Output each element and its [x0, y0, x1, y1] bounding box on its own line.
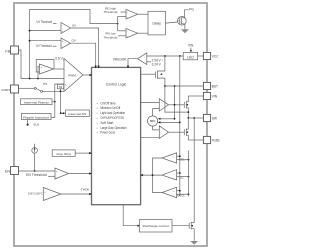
arrowhead VREGOK into control logic — [127, 66, 129, 69]
comparator OCL — [162, 153, 177, 163]
svg-text:Control Logic: Control Logic — [106, 83, 127, 87]
comparator UV — [61, 23, 71, 34]
svg-text:SLN: SLN — [33, 122, 39, 126]
node SS switch line — [60, 90, 62, 92]
arrowhead internal SS to bus — [63, 112, 65, 114]
wire stub to IPG high cmp minus — [118, 16, 126, 18]
svg-text:ZC: ZC — [180, 175, 185, 179]
svg-text:Ripple Injection: Ripple Injection — [23, 115, 49, 119]
node rail A tap — [174, 85, 176, 87]
comparator EN — [55, 168, 69, 179]
svg-text:VREGOK: VREGOK — [113, 58, 127, 62]
svg-text:On/Off time: On/Off time — [100, 101, 116, 105]
wire IPG low out — [138, 32, 148, 34]
wire BBM bottom stub — [153, 126, 160, 130]
bullet list control logic functions — [97, 101, 127, 134]
wire IPG low threshold dash — [118, 35, 126, 37]
wire ZC input 1 — [177, 172, 180, 174]
wire OCL input 2 — [177, 159, 189, 161]
arrowhead PWM into control logic — [90, 74, 93, 76]
wire FB sense to IPG comparators — [30, 10, 118, 24]
wire IPG input bus — [117, 17, 119, 31]
wire VIN sense line to LDO — [147, 55, 183, 57]
wire BBM feedback line 2 — [160, 121, 180, 123]
wire UV threshold dash — [53, 22, 57, 24]
wire SLLM input 1 — [177, 190, 180, 192]
wire IPG high threshold dash — [121, 11, 126, 13]
wire VIN pin — [188, 95, 203, 97]
svg-text:BBM: BBM — [150, 120, 155, 123]
svg-text:0.6 V: 0.6 V — [55, 56, 63, 60]
pin SW — [203, 114, 210, 121]
one shot block — [52, 150, 75, 156]
wire discharge rail — [193, 118, 195, 223]
svg-text:Discharge control: Discharge control — [143, 224, 169, 228]
svg-text:•: • — [97, 121, 98, 125]
SS small box — [57, 84, 63, 89]
svg-text:Threshold: Threshold — [104, 35, 118, 39]
driver HS — [159, 99, 168, 111]
wire BBM top stub — [153, 109, 160, 116]
svg-text:One Shot: One Shot — [56, 152, 71, 156]
node BST switch drain — [164, 55, 166, 57]
wire IPG high out — [138, 13, 148, 15]
node SS internal junction — [60, 112, 62, 114]
wire cluster rail C — [188, 151, 190, 197]
node UV stub — [29, 30, 31, 32]
svg-text:PWM: PWM — [68, 73, 76, 77]
internal ramp block — [21, 99, 53, 105]
svg-text:VOSNS: VOSNS — [1, 88, 10, 92]
svg-text:•: • — [97, 126, 98, 130]
svg-text:Threshold: Threshold — [104, 10, 118, 14]
discharge control block — [140, 220, 173, 233]
pin VOSNS — [11, 85, 19, 93]
node rail A gate line junction — [174, 104, 176, 106]
node VIN rail tap — [179, 55, 181, 57]
comparator VREG monitor — [138, 53, 147, 65]
wire SLLM input 2 — [177, 193, 189, 195]
svg-text:SS: SS — [59, 86, 63, 89]
node FB sense junction — [117, 23, 119, 25]
comparator SLLM — [162, 187, 177, 197]
node SW FETs — [187, 117, 189, 119]
wire one shot output — [75, 152, 90, 154]
wire ZC output into control logic — [142, 174, 162, 176]
wire rail A down — [174, 86, 176, 119]
svg-text:PGND: PGND — [212, 139, 220, 143]
svg-text:Soft Start: Soft Start — [100, 121, 113, 125]
wire OCL input 1 — [177, 155, 180, 157]
wire stub to IPG low cmp plus — [118, 30, 126, 32]
wire ZC input 2 — [177, 176, 189, 178]
wire ripple output to bus — [51, 117, 55, 119]
wire control logic to discharge — [123, 205, 138, 226]
control logic block — [92, 67, 141, 204]
wire ripple down stub — [27, 120, 29, 124]
node EN junction — [34, 170, 36, 172]
wire VREGOK to control logic — [128, 59, 138, 67]
svg-text:EN Threshold: EN Threshold — [26, 173, 47, 177]
wire OV threshold dash — [53, 45, 57, 47]
svg-text:VCC: VCC — [212, 55, 219, 59]
transistor BST switch FET — [141, 73, 156, 75]
ground PG FET — [181, 29, 189, 33]
comparator TSD — [43, 188, 61, 201]
pin VCC — [203, 52, 210, 59]
wire OV output to control logic — [71, 43, 96, 66]
wire PGND — [188, 139, 203, 141]
wire FB pin down to PWM comparator — [19, 50, 65, 79]
wire LDO output to VCC pin — [198, 55, 204, 57]
svg-text:THOK: THOK — [81, 188, 91, 192]
node ramp junction — [54, 101, 56, 103]
svg-text:•: • — [97, 111, 98, 115]
arrowhead UV into control logic — [98, 66, 100, 69]
svg-text:150°C/130°C: 150°C/130°C — [28, 192, 43, 196]
svg-text:Large Duty Operation: Large Duty Operation — [100, 126, 126, 130]
wire stub OV cmp — [30, 40, 62, 42]
wire EN threshold dash — [48, 175, 55, 177]
node BST source junction — [164, 85, 166, 87]
comparator OV — [61, 38, 71, 49]
wire EN cmp output — [69, 173, 91, 175]
pin VIN — [203, 92, 210, 99]
current source EN pullup — [32, 148, 38, 154]
node FB/bus junction — [29, 78, 31, 80]
BBM circle — [148, 116, 158, 126]
svg-text:•: • — [97, 116, 98, 120]
svg-text:Internal Ramp: Internal Ramp — [24, 101, 49, 105]
wire BST rail — [165, 85, 204, 87]
wire summing bus — [54, 84, 56, 118]
pin PGND — [203, 136, 210, 143]
pin EN — [11, 167, 19, 175]
svg-text:Minimum On/Off: Minimum On/Off — [100, 106, 120, 110]
svg-text:UV Threshold: UV Threshold — [37, 20, 53, 24]
svg-text:OVP/UVP/OCP/TSD: OVP/UVP/OCP/TSD — [100, 116, 124, 120]
comparator PWM — [64, 59, 83, 92]
node sense tap right — [187, 111, 189, 113]
wire PWM output — [83, 74, 91, 76]
IC boundary — [14, 3, 207, 246]
svg-text:LDO: LDO — [187, 55, 194, 59]
arrowhead OV into control logic — [95, 66, 97, 69]
wire TSD output — [61, 193, 90, 195]
switch PS on VOSNS line — [19, 87, 35, 89]
ground discharge FET — [190, 241, 198, 245]
svg-text:3.24 V: 3.24 V — [152, 63, 162, 67]
pin BST — [203, 82, 210, 89]
wire VIN arrow into LDO — [190, 48, 192, 51]
transistor discharge FET — [172, 225, 189, 227]
svg-text:UV: UV — [72, 24, 76, 28]
svg-text:Delay: Delay — [152, 22, 161, 26]
node EA tap junction — [37, 78, 39, 80]
wire SW node — [188, 117, 203, 119]
pin FB — [11, 46, 19, 54]
wire OCL output — [153, 158, 163, 193]
svg-text:•: • — [97, 106, 98, 110]
wire SS bus — [60, 89, 62, 113]
svg-text:PS: PS — [43, 82, 47, 86]
transistor LS FET — [169, 131, 185, 133]
svg-text:OV Threshold: OV Threshold — [36, 44, 52, 48]
svg-text:Internal SS: Internal SS — [68, 112, 86, 116]
wire delay out to PG FET gate — [166, 22, 178, 23]
wire 0.6V ref stub — [63, 59, 65, 61]
delay block — [148, 11, 166, 35]
wire EA output to PWM comparator — [54, 68, 65, 70]
comparator ZC — [162, 170, 177, 180]
wire BBM feedback line 1 — [160, 118, 174, 120]
op-amp EA — [40, 64, 54, 74]
svg-text:VIN: VIN — [212, 95, 218, 99]
transistor HS FET — [169, 104, 185, 106]
svg-text:SW: SW — [212, 117, 217, 121]
svg-text:EN: EN — [5, 169, 10, 173]
wire bus to PWM input — [55, 83, 64, 85]
wire ramp output to summing bus — [52, 101, 55, 103]
wire rail B down — [179, 56, 181, 196]
comparator IPG high — [126, 10, 138, 20]
arrowhead into control logic right — [140, 174, 143, 176]
LDO block — [183, 52, 198, 59]
wire EA feedback loop — [36, 60, 54, 72]
wire HS driver input — [141, 102, 160, 104]
wire stub UV cmp — [30, 30, 62, 32]
internal SS block — [66, 110, 90, 116]
svg-text:VIN: VIN — [188, 44, 194, 48]
svg-text:•: • — [97, 101, 98, 105]
node SW discharge tap — [193, 117, 195, 119]
node OV stub — [29, 40, 31, 42]
wire VREG cmp minus stub — [147, 61, 151, 63]
wire EA plus input tap — [38, 66, 40, 78]
wire UV output to control logic — [71, 28, 99, 67]
driver LS — [159, 126, 168, 139]
svg-text:FB: FB — [5, 50, 10, 54]
wire LS driver input — [141, 136, 160, 138]
svg-text:Power Good: Power Good — [100, 131, 115, 135]
svg-text:BST: BST — [212, 85, 218, 89]
svg-text:OV: OV — [72, 39, 76, 43]
comparator IPG low — [126, 29, 138, 39]
ripple injection block — [22, 113, 52, 119]
wire current sense tap — [165, 86, 188, 112]
wire EN pin line — [19, 170, 56, 172]
svg-text:PG: PG — [189, 8, 194, 12]
svg-text:-: - — [41, 72, 42, 75]
wire UV/OV sense bus — [29, 10, 31, 79]
transistor PG open-drain FET — [178, 17, 187, 26]
svg-text:•: • — [97, 131, 98, 135]
svg-text:Light load Operation: Light load Operation — [100, 111, 125, 115]
